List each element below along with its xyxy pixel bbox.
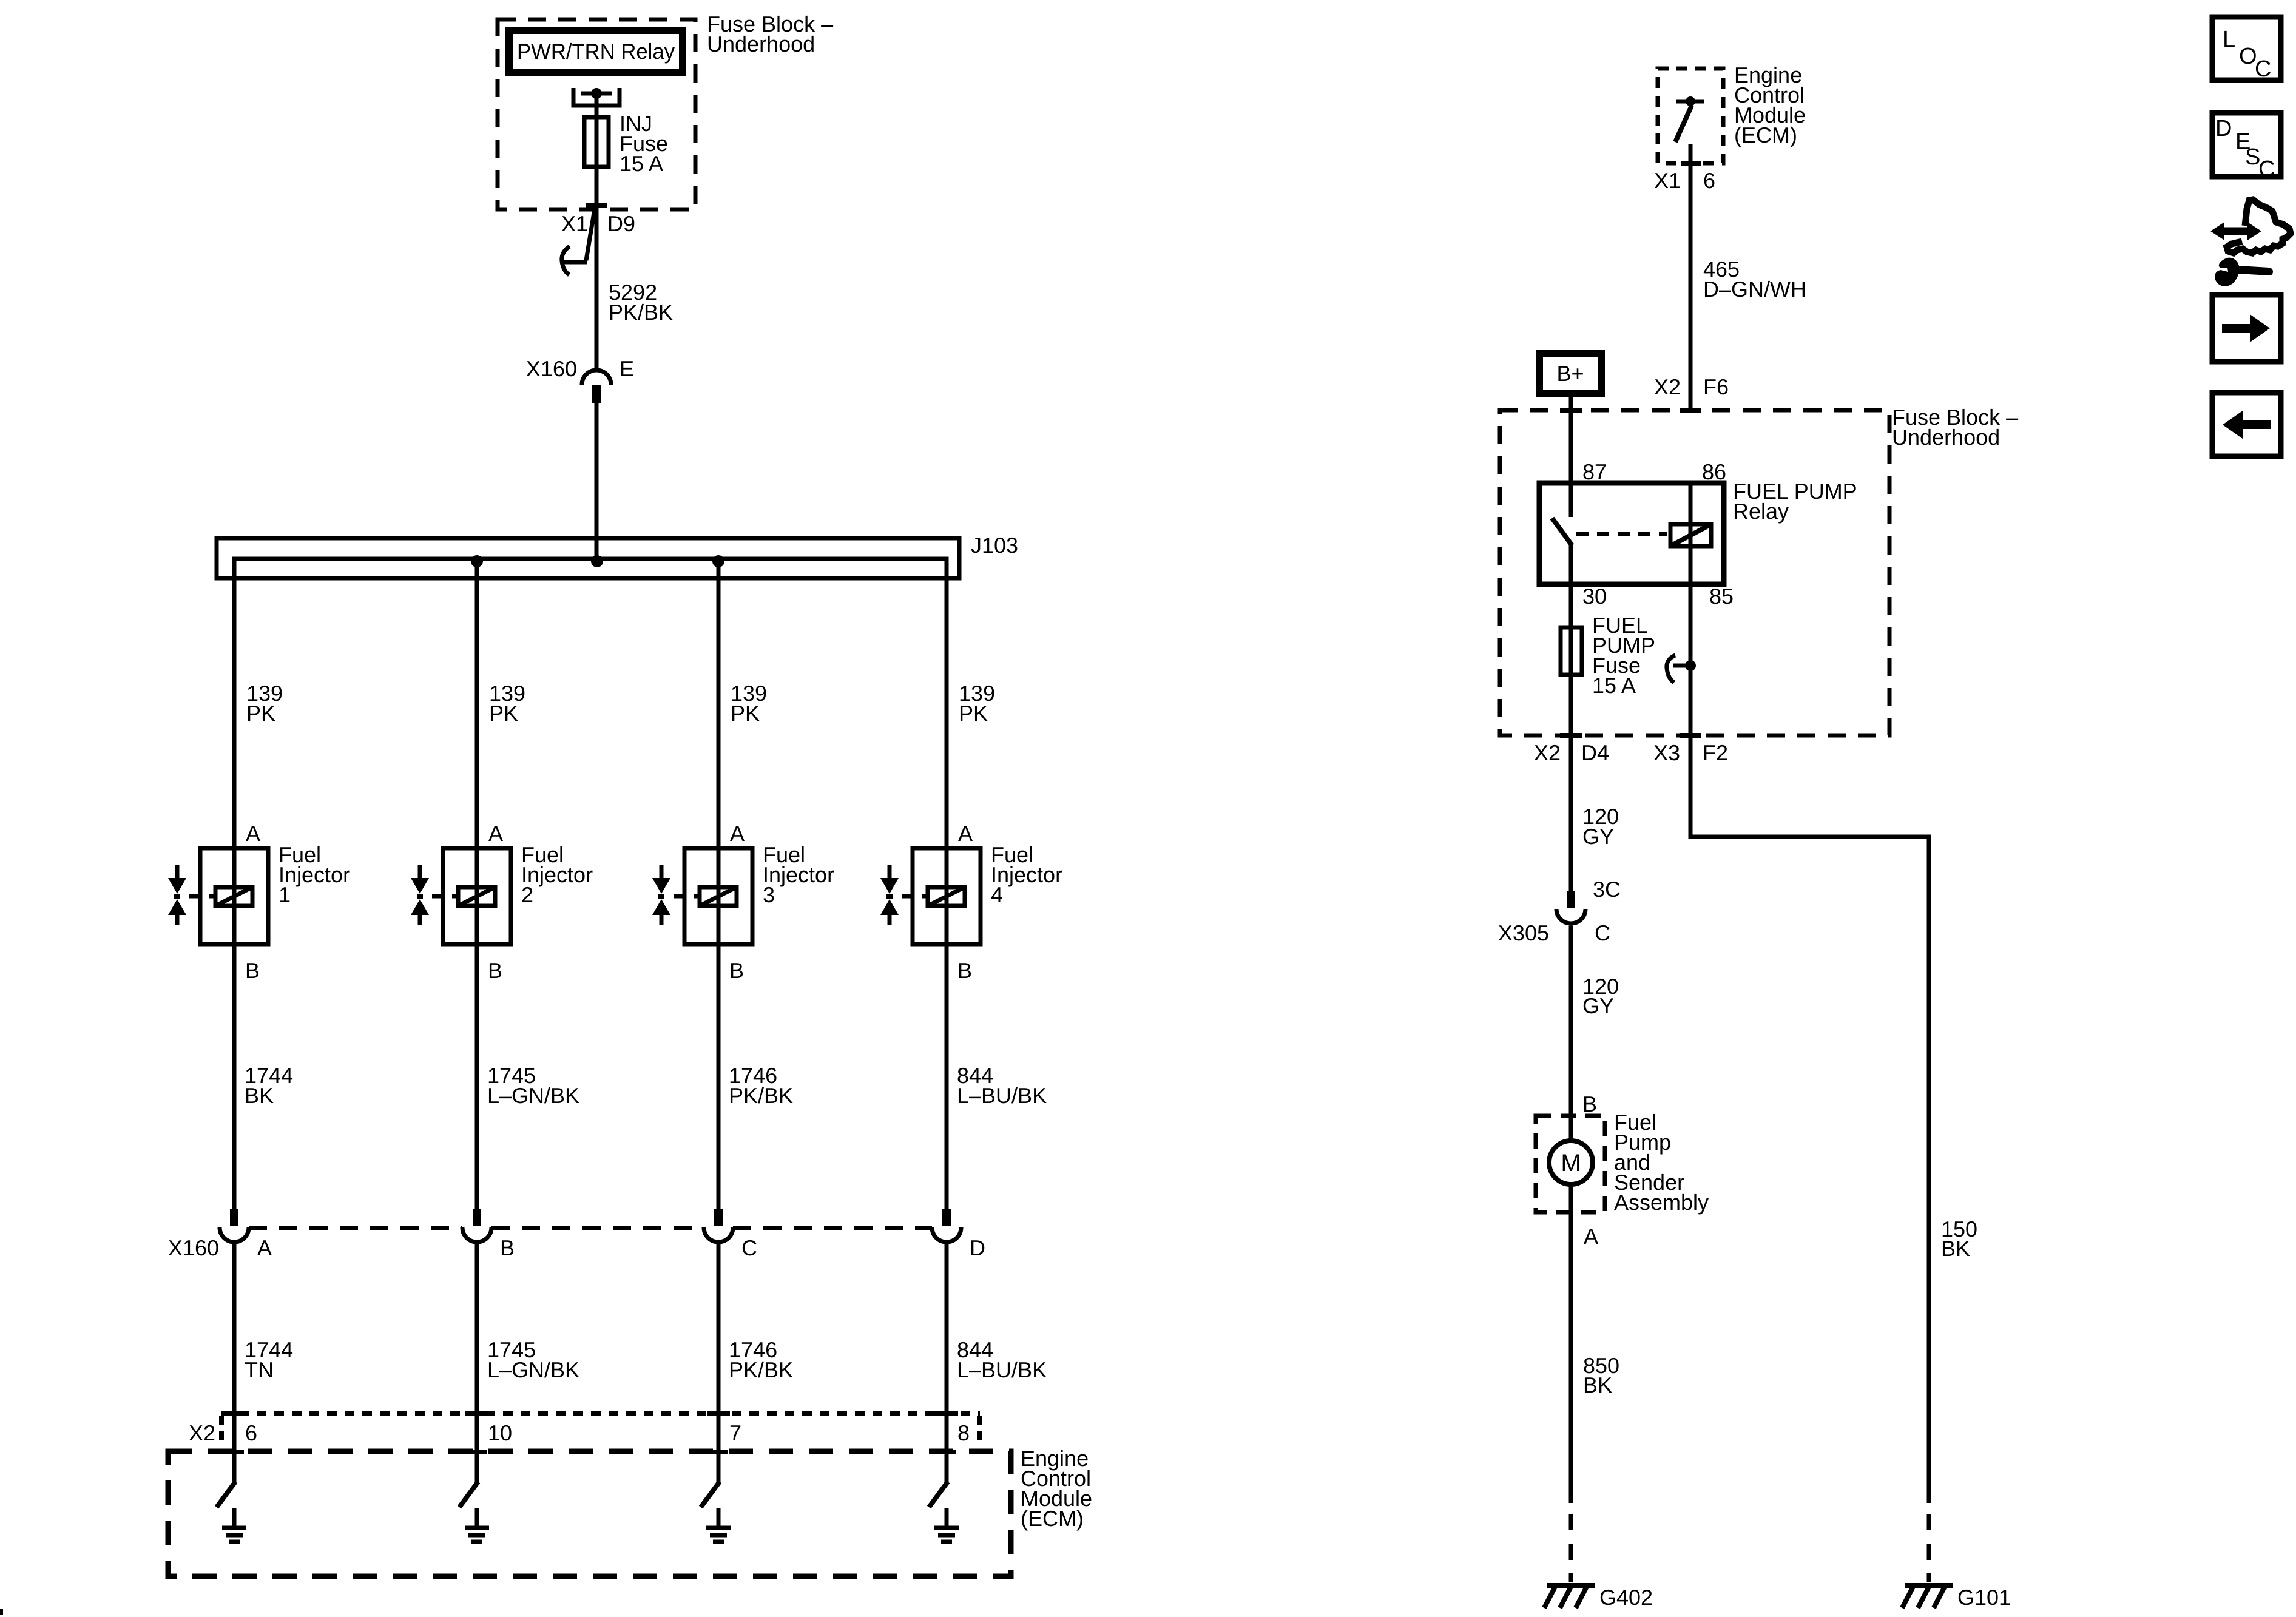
svg-text:15 A: 15 A — [1592, 673, 1636, 698]
svg-text:J103: J103 — [971, 533, 1018, 558]
svg-text:D4: D4 — [1581, 740, 1609, 765]
svg-text:F6: F6 — [1703, 374, 1729, 399]
svg-text:X1: X1 — [1654, 168, 1681, 193]
svg-text:BK: BK — [245, 1083, 274, 1108]
svg-text:8: 8 — [957, 1420, 970, 1445]
svg-text:X1: X1 — [561, 211, 588, 236]
svg-text:X2: X2 — [189, 1420, 215, 1445]
svg-text:L: L — [2223, 27, 2235, 52]
svg-text:B: B — [245, 958, 260, 983]
svg-text:BK: BK — [1941, 1236, 1970, 1261]
svg-text:X3: X3 — [1653, 740, 1680, 765]
svg-text:E: E — [620, 356, 634, 381]
svg-text:A: A — [257, 1235, 272, 1260]
svg-text:PWR/TRN Relay: PWR/TRN Relay — [517, 39, 675, 64]
svg-text:C: C — [1595, 920, 1610, 945]
svg-text:4: 4 — [991, 882, 1003, 907]
svg-text:7: 7 — [729, 1420, 741, 1445]
svg-text:15 A: 15 A — [620, 151, 663, 176]
svg-text:Relay: Relay — [1733, 499, 1789, 524]
svg-text:D: D — [970, 1235, 985, 1260]
svg-text:X160: X160 — [526, 356, 577, 381]
svg-text:X2: X2 — [1534, 740, 1561, 765]
svg-text:PK/BK: PK/BK — [729, 1083, 793, 1108]
svg-text:L–BU/BK: L–BU/BK — [957, 1083, 1047, 1108]
svg-text:PK: PK — [959, 701, 988, 726]
svg-text:A: A — [1584, 1224, 1598, 1249]
svg-text:3C: 3C — [1593, 877, 1621, 902]
svg-text:3: 3 — [763, 882, 775, 907]
svg-text:6: 6 — [245, 1420, 257, 1445]
svg-text:TN: TN — [245, 1357, 274, 1382]
svg-text:PK: PK — [246, 701, 275, 726]
svg-text:A: A — [488, 821, 503, 846]
svg-text:M: M — [1561, 1150, 1581, 1176]
svg-text:B: B — [957, 958, 972, 983]
svg-text:B+: B+ — [1556, 361, 1584, 386]
svg-text:D–GN/WH: D–GN/WH — [1703, 277, 1806, 302]
svg-text:Underhood: Underhood — [707, 32, 815, 56]
svg-text:X2: X2 — [1654, 374, 1681, 399]
svg-text:Assembly: Assembly — [1614, 1190, 1709, 1215]
svg-text:2: 2 — [521, 882, 533, 907]
svg-text:X160: X160 — [168, 1235, 219, 1260]
svg-text:B: B — [1582, 1092, 1597, 1116]
svg-text:C: C — [2255, 56, 2271, 82]
svg-text:A: A — [958, 821, 973, 846]
svg-text:G402: G402 — [1599, 1585, 1653, 1610]
svg-text:PK: PK — [489, 701, 518, 726]
svg-text:C: C — [2258, 157, 2275, 182]
svg-text:A: A — [730, 821, 745, 846]
svg-text:A: A — [246, 821, 260, 846]
svg-text:GY: GY — [1582, 824, 1614, 849]
svg-text:Underhood: Underhood — [1892, 425, 2000, 450]
svg-text:B: B — [500, 1235, 515, 1260]
svg-text:30: 30 — [1582, 584, 1607, 609]
svg-text:10: 10 — [488, 1420, 512, 1445]
svg-text:(ECM): (ECM) — [1734, 123, 1797, 147]
svg-text:F2: F2 — [1703, 740, 1728, 765]
svg-text:1: 1 — [279, 882, 291, 907]
svg-text:PK/BK: PK/BK — [609, 300, 673, 325]
svg-text:6: 6 — [1703, 168, 1715, 193]
svg-text:D: D — [2215, 116, 2232, 141]
svg-text:D9: D9 — [607, 211, 635, 236]
svg-text:L–GN/BK: L–GN/BK — [487, 1357, 579, 1382]
svg-text:PK: PK — [731, 701, 760, 726]
svg-text:X305: X305 — [1498, 920, 1549, 945]
svg-text:G101: G101 — [1957, 1585, 2011, 1610]
svg-text:BK: BK — [1583, 1372, 1612, 1397]
svg-text:87: 87 — [1582, 459, 1607, 484]
svg-text:B: B — [729, 958, 744, 983]
svg-text:85: 85 — [1709, 584, 1734, 609]
svg-text:L–BU/BK: L–BU/BK — [957, 1357, 1047, 1382]
svg-text:(ECM): (ECM) — [1021, 1506, 1084, 1531]
svg-text:L–GN/BK: L–GN/BK — [487, 1083, 579, 1108]
svg-text:GY: GY — [1582, 993, 1614, 1018]
svg-text:C: C — [741, 1235, 757, 1260]
svg-text:B: B — [488, 958, 502, 983]
svg-text:PK/BK: PK/BK — [729, 1357, 793, 1382]
svg-text:86: 86 — [1702, 459, 1726, 484]
